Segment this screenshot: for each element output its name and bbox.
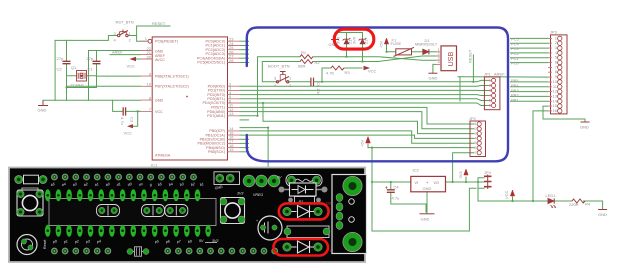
svg-text:5V: 5V (199, 239, 204, 243)
svg-text:JP1: JP1 (484, 72, 492, 77)
svg-text:4.7K: 4.7K (326, 71, 335, 76)
PCB bottom circle pad row (51, 248, 277, 254)
svg-text:GND: GND (598, 212, 607, 217)
svg-text:PB1: PB1 (511, 97, 519, 102)
PCB silkscreen labels bottom row (51, 239, 218, 244)
wire AREF pin21 (110, 54, 141, 56)
ground symbol IC2 (420, 213, 435, 215)
wire RESET label stub (137, 26, 170, 36)
wire PC4 stub (240, 57, 249, 59)
svg-text:C6 10n: C6 10n (316, 82, 321, 95)
PCB top oval pad row (45, 189, 200, 201)
wire LED rail riser (477, 182, 479, 201)
svg-text:C3: C3 (130, 117, 135, 123)
PCB DIP socket body outline (49, 199, 216, 226)
zener diode Z2 (359, 38, 367, 44)
wire PB4 stub (240, 147, 249, 149)
svg-text:PC5(ADC5/SCL): PC5(ADC5/SCL) (197, 61, 225, 65)
svg-text:USB: USB (446, 52, 455, 67)
svg-text:BOOT_BTN: BOOT_BTN (268, 64, 290, 69)
PCB silkscreen labels top row (50, 182, 204, 187)
svg-text:VCC: VCC (124, 131, 133, 136)
svg-text:FUSE: FUSE (391, 41, 402, 46)
svg-text:3V3: 3V3 (458, 171, 463, 179)
wire PD0 to JP1 (240, 85, 489, 88)
wire PB5 stub (240, 151, 249, 153)
wire JP3 net stubs PC5-PC0 (511, 38, 549, 62)
svg-text:+: + (256, 219, 258, 223)
wire VCC pin7 / C3 (113, 100, 141, 111)
PCB power connector right (332, 175, 367, 254)
ground symbol LED (598, 209, 607, 211)
wire stub vertical near USB (459, 77, 461, 101)
wire JP2 pin7 riser (453, 153, 474, 182)
svg-text:ATMEGA: ATMEGA (155, 154, 171, 158)
svg-text:220R: 220R (569, 202, 579, 207)
net labels at JP3 left (494, 37, 520, 103)
pushbutton BOOT_BTN (276, 72, 289, 84)
wire D- feed from PD7 (258, 57, 301, 116)
wire regulator output (446, 181, 485, 183)
svg-text:16: 16 (553, 108, 558, 113)
svg-text:p2: p2 (73, 239, 79, 244)
svg-text:VCC: VCC (127, 64, 136, 69)
PCB diode D1 (circled) (283, 241, 322, 253)
wire crystal left / C2 (67, 40, 77, 87)
wire PC5 stub (240, 62, 249, 64)
+5V arrow at fuse (384, 38, 388, 44)
svg-text:AREF: AREF (494, 71, 505, 76)
svg-text:68R: 68R (298, 64, 305, 69)
wire PC2 stub (240, 49, 249, 51)
svg-text:27p: 27p (57, 56, 64, 61)
ground symbol USB (428, 72, 437, 74)
wire down to PCB (240, 128, 268, 176)
svg-text:28: 28 (229, 58, 234, 63)
svg-text:27p: 27p (87, 56, 94, 61)
LED1 (548, 198, 556, 207)
resistor R4 (572, 199, 585, 203)
wire riser to JP2 pin3 (263, 103, 474, 134)
diode D1 (423, 49, 429, 54)
ground symbol below JP3 (581, 121, 590, 123)
svg-text:RESET: RESET (152, 21, 166, 26)
svg-text:MBR0520LT: MBR0520LT (415, 42, 438, 47)
connector JP2 (469, 116, 486, 157)
svg-text:+5V: +5V (379, 40, 384, 48)
svg-text:VCC: VCC (155, 110, 163, 114)
pushbutton RST_BTN (118, 30, 129, 37)
svg-text:C2: C2 (57, 67, 63, 72)
PCB pushbutton left (17, 188, 43, 216)
svg-text:Reset: Reset (43, 240, 47, 249)
PCB bottom oval pad row (45, 225, 211, 237)
wire PC1 stub (240, 45, 249, 47)
wire XTAL1 pin9 (97, 75, 141, 77)
wire PD7 stub (240, 115, 258, 117)
PCB fuse footprint (286, 175, 322, 187)
svg-text:PC0: PC0 (511, 61, 520, 66)
svg-text:R3: R3 (345, 70, 351, 75)
wire PC3 stub (240, 53, 249, 55)
voltage regulator IC2 (411, 168, 446, 192)
wire bottom loop to JP4 (372, 182, 476, 231)
capacitor C6 inline (311, 78, 314, 86)
wire PD5 to JP2 pin1 (240, 107, 474, 124)
red annotation around PCB diode D1 (274, 239, 329, 256)
wire +5V to fuse (387, 44, 396, 52)
svg-text:GND: GND (155, 98, 164, 102)
svg-text:13: 13 (229, 111, 234, 116)
connector JP4 (484, 175, 492, 190)
blue annotation rounded frame (247, 28, 508, 162)
wire cap bottom rail (67, 88, 97, 101)
connector JP3 (548, 30, 567, 114)
VCC arrow bottom (510, 190, 514, 196)
svg-text:4.7u: 4.7u (120, 117, 125, 125)
wire fuse to diode D1 (412, 51, 423, 53)
crystal Q1 (77, 71, 87, 82)
svg-text:VI: VI (415, 181, 418, 185)
svg-text:+5V: +5V (360, 139, 365, 147)
svg-text:RST_BTN: RST_BTN (116, 20, 134, 25)
wire +5V mid drop (368, 144, 372, 182)
wire RESET net vertical (472, 55, 474, 82)
svg-text:LED1: LED1 (546, 193, 557, 198)
wire regulator input (372, 181, 411, 183)
wire zener top rail to GND (335, 33, 363, 40)
svg-text:RESET: RESET (468, 49, 473, 63)
wire AREF long to JP3 pin9 (458, 76, 548, 78)
svg-text:R2: R2 (315, 60, 321, 65)
USB connector (436, 46, 457, 71)
wire PD1 to JP1 (240, 89, 489, 91)
wire VCC arrow drop (133, 111, 138, 126)
svg-text:VREG: VREG (253, 193, 263, 197)
svg-text:AREF: AREF (155, 54, 166, 58)
wire VCC arrow stem (512, 197, 514, 201)
wire PD4 to JP1 (240, 103, 489, 106)
wire PB3 stub (240, 142, 249, 144)
svg-text:b0: b0 (187, 239, 192, 244)
svg-text:p3: p3 (84, 239, 90, 244)
svg-text:C1: C1 (88, 67, 94, 72)
wire JP3 pin15 to GND (543, 106, 585, 122)
svg-text:4.7u: 4.7u (392, 196, 400, 201)
svg-text:p6: p6 (164, 239, 170, 244)
wire PC0 stub (240, 40, 249, 42)
svg-text:C4: C4 (394, 185, 400, 190)
wire USB pin4 to GND (433, 64, 436, 73)
ground symbol left (38, 100, 48, 105)
svg-text:PC6(/RESET): PC6(/RESET) (155, 39, 178, 43)
wire R3 riser (322, 68, 331, 82)
wire zener Z1 drop (346, 44, 348, 57)
svg-text:R1: R1 (301, 50, 307, 55)
VCC arrow left (AVCC) (130, 57, 137, 61)
svg-text:GND: GND (429, 76, 438, 81)
wire PD6 to JP2 pin2 (240, 112, 474, 129)
wire pin22 GND (89, 51, 141, 101)
PCB electrolytic cap (256, 216, 282, 240)
svg-text:PB6(XTAL1/TOSC1): PB6(XTAL1/TOSC1) (155, 74, 189, 78)
capacitor C2 (63, 61, 71, 63)
svg-text:VCC: VCC (368, 69, 377, 74)
svg-text:AVCC: AVCC (155, 58, 165, 62)
capacitor C1 (93, 61, 101, 63)
svg-text:p4: p4 (95, 239, 101, 244)
connector JP1 (484, 72, 500, 110)
svg-text:PB5(SCK): PB5(SCK) (208, 150, 225, 154)
capacitor C4 (385, 186, 395, 192)
PCB plain rect part (284, 226, 330, 238)
IC1 pin numbers left (145, 36, 152, 112)
schematic wires green (43, 26, 603, 231)
wire LED rail (478, 201, 603, 210)
VCC arrow at C3 (127, 124, 133, 128)
IC1 origin dot (186, 96, 188, 98)
svg-text:3V3: 3V3 (237, 192, 243, 196)
svg-text:GND: GND (423, 186, 432, 191)
PCB crystal footprint bottom (127, 247, 149, 256)
PCB silkscreen 3V3 trace label (205, 242, 217, 244)
IC1 pin names right (197, 39, 225, 154)
svg-text:PD7(AIN1): PD7(AIN1) (207, 114, 225, 118)
wire R3 to VCC arrow (344, 67, 362, 69)
red annotation around zeners (334, 29, 374, 49)
svg-text:p1: p1 (62, 239, 68, 244)
wire boot button right to JP1 pin1 (288, 80, 489, 81)
wire AVCC pin20 (137, 58, 141, 60)
svg-text:p0: p0 (51, 239, 57, 244)
svg-text:GND: GND (580, 125, 589, 130)
svg-text:JP3: JP3 (550, 30, 558, 35)
svg-text:AREF: AREF (112, 50, 123, 55)
+5V arrow mid (366, 137, 371, 144)
svg-text:GND: GND (421, 217, 430, 222)
wire IC2 gnd (426, 192, 428, 214)
capacitor C3 (123, 107, 125, 115)
pin1 inversion bubble (148, 39, 152, 43)
svg-text:12 MHz: 12 MHz (70, 83, 84, 88)
svg-text:p5: p5 (153, 239, 159, 244)
PCB small parts inside DIP (97, 205, 188, 217)
PCB R3 part (288, 197, 321, 204)
PCB board outline (9, 168, 365, 263)
wire 3V3 stem (465, 177, 467, 182)
wire C4 leads (391, 182, 426, 212)
PCB top circle pad row (51, 174, 196, 180)
wire D- line R1 to USB (313, 57, 436, 61)
PCB diode D2 (circled) (283, 206, 322, 218)
wire PB2 stub (240, 138, 249, 140)
PCB top-left resistor part (15, 175, 47, 184)
wire +5V rail to JP2 pin6 (368, 147, 474, 149)
svg-text:VO: VO (434, 181, 439, 185)
wire net stubs PB into JP3 (511, 82, 549, 101)
svg-text:19: 19 (229, 147, 234, 152)
PCB GND bracket top (214, 172, 240, 185)
wire JP4 stubs (478, 178, 484, 188)
svg-text:GND: GND (38, 108, 47, 113)
wire zener Z2 drop (362, 44, 364, 62)
wire PB0 to JP2 pin5 (240, 131, 474, 143)
svg-text:VCC: VCC (504, 190, 509, 199)
wire crystal right / C1 (87, 51, 97, 88)
PCB diode D footprint top (279, 183, 328, 196)
wire PD2 to JP1 (240, 94, 489, 97)
wire button-left to GND rail (54, 40, 56, 100)
wire RESET button to pin1 (55, 36, 147, 42)
junction dot C3/VCC (137, 110, 139, 112)
svg-text:5V: 5V (277, 176, 282, 180)
svg-text:JP4: JP4 (484, 170, 492, 175)
PCB pad drill dots (53, 176, 275, 252)
wire D+ feed to boot button (262, 62, 300, 82)
IC1 pin numbers right (229, 37, 234, 153)
wire GND rail (43, 99, 141, 101)
svg-text:PD4(XCK/T0): PD4(XCK/T0) (202, 101, 225, 105)
svg-text:20: 20 (147, 54, 152, 59)
IC1 pin names left (155, 39, 189, 113)
VCC arrow right (364, 66, 371, 70)
wire JP3 pin16 long vertical to VCC rail (533, 111, 548, 201)
resistor R1 (300, 55, 313, 59)
ground symbol zener (331, 39, 339, 41)
IC1 right pin stubs (228, 41, 241, 152)
wire PD3 to JP1 (240, 99, 489, 101)
fuse F1 (394, 47, 415, 56)
wire D+ line R2 to USB (313, 56, 436, 62)
wire PB1 to JP2 pin4 (240, 135, 474, 138)
PCB VREG pads (243, 175, 280, 187)
svg-text:3V6: 3V6 (352, 36, 357, 44)
op IC1 box (152, 37, 227, 160)
IC1 left pin stubs (141, 41, 153, 111)
svg-text:R4: R4 (585, 202, 591, 207)
svg-text:10: 10 (147, 82, 152, 87)
zener diode Z1 (343, 38, 351, 44)
wire stub y119.9 (240, 119, 249, 121)
wire XTAL2 pin10 (67, 85, 141, 87)
3V3 arrow (464, 169, 468, 175)
resistor R3 (331, 66, 344, 70)
PCB spiral component (reset) (17, 235, 37, 255)
wire diode to USB pin1 (430, 51, 437, 53)
svg-text:Q1: Q1 (71, 65, 77, 70)
resistor R2 (300, 60, 313, 64)
svg-text:IC2: IC2 (413, 168, 420, 173)
svg-text:PB7(XTAL2/TOSC2): PB7(XTAL2/TOSC2) (155, 85, 189, 89)
PCB pushbutton right (220, 198, 245, 224)
red annotation around PCB diode D2 (279, 203, 329, 219)
